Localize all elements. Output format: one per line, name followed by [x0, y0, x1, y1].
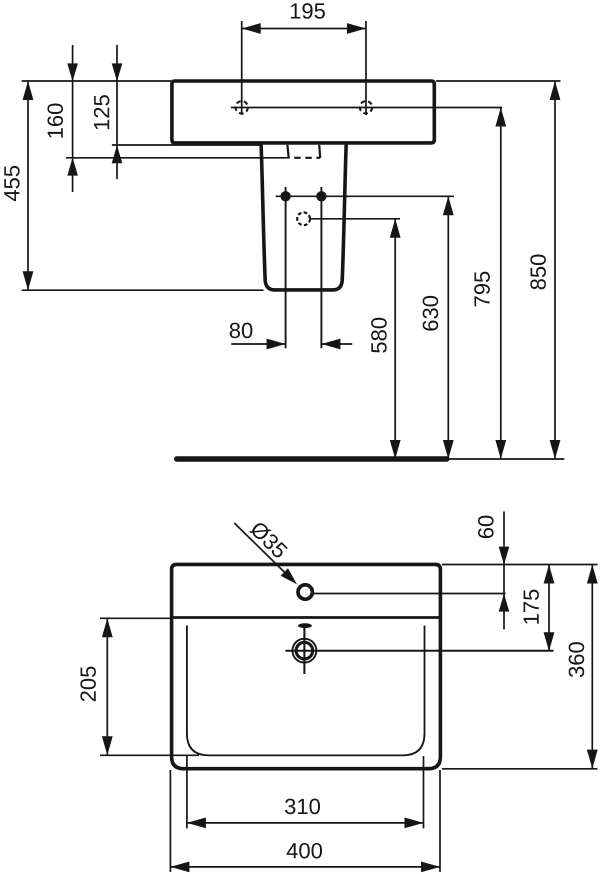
faucet hole: [298, 585, 312, 599]
ext 160 y157.5: [66, 157, 289, 159]
ext y564.5 right: [442, 564, 598, 566]
dim 125 bottom arrow: [112, 145, 123, 163]
dim 795 line: [500, 108, 502, 460]
dim 160 label: [47, 104, 63, 138]
dim 205 line: [106, 618, 108, 755]
dim 310 line: [187, 822, 424, 824]
ext 400 right x440: [439, 770, 441, 872]
mounting hole left: [236, 101, 248, 113]
ext 205 top y618.3: [100, 617, 170, 619]
ext bottom right y768.8: [442, 768, 598, 770]
ext top-left y81: [22, 80, 171, 82]
dim 580 line: [394, 219, 396, 459]
ext 125 y143.9: [112, 144, 262, 146]
dim 205 label: [80, 667, 96, 702]
hidden drain (dashed trapezoid): [287, 145, 288, 158]
dim 580 label: [371, 318, 387, 353]
dim 60 bottom arrow: [499, 594, 510, 612]
ext top-right y81: [436, 80, 561, 82]
fixing dot right: [316, 191, 326, 201]
fixing dot left: [280, 191, 290, 201]
inner bowl: [187, 626, 425, 756]
dim 630 label: [423, 296, 439, 331]
floor line thin: [447, 458, 565, 460]
dim 400 label: [287, 843, 322, 859]
top view: outer rim: [172, 564, 441, 768]
faucet leader arrowhead: [281, 568, 297, 584]
ext faucet centre y593.5: [314, 593, 506, 595]
washbasin front view: basin body: [172, 81, 434, 143]
dim 400 line: [170, 866, 440, 868]
ext 310 right x423.5: [423, 756, 425, 828]
ext pedestal bottom y290: [22, 289, 264, 291]
trap hole (dashed circle): [297, 212, 310, 225]
ext 310 left x186.9: [186, 756, 188, 828]
dim 125 label: [94, 95, 110, 129]
drain inner circle: [296, 642, 313, 659]
dim 455 label: [4, 166, 19, 201]
dot vertical right: [320, 187, 322, 348]
dim 175 line: [548, 565, 550, 652]
ext 400 left x170.4: [169, 770, 171, 872]
dim 160 top arrow: [72, 45, 74, 192]
ext 205 bottom y755.3: [100, 754, 199, 756]
dim 60 label: [478, 516, 494, 538]
dim 60 top arrow: [503, 512, 505, 630]
dim 175 label: [524, 590, 539, 624]
dim 195 line: [242, 28, 366, 30]
dim 80 left arrow: [231, 343, 285, 345]
dim 850 label: [530, 255, 546, 290]
hole centre line: [231, 107, 502, 109]
dim 80 label: [230, 323, 253, 339]
dim 455 line: [27, 81, 29, 290]
dim 360 line: [591, 565, 593, 769]
dim 795 label: [474, 272, 490, 307]
dim 195 extension right: [365, 21, 367, 115]
drain outer circle: [292, 639, 316, 663]
dim 160 bottom arrow: [67, 158, 78, 176]
dim 80 right arrow: [321, 343, 352, 345]
dim 195 label: [291, 3, 325, 19]
dot vertical left: [285, 187, 287, 348]
dot centre line: [276, 195, 454, 197]
floor line thick: [177, 456, 447, 462]
overflow slot: [298, 623, 312, 628]
dim 630 line: [447, 196, 449, 459]
drain horizontal centre line: [286, 650, 554, 652]
dim 310 label: [285, 799, 320, 815]
dim 850 line: [554, 81, 556, 459]
drain vertical centre line: [303, 628, 305, 674]
dim 125 top arrow: [116, 45, 118, 179]
ledge line: [172, 616, 439, 619]
trap centre line: [310, 218, 400, 220]
pedestal: [261, 144, 346, 290]
mounting hole right: [360, 101, 372, 113]
dim 360 label: [569, 642, 585, 677]
faucet leader line: [234, 523, 290, 578]
dim 195 extension left: [241, 21, 243, 115]
label D35: [249, 520, 289, 560]
